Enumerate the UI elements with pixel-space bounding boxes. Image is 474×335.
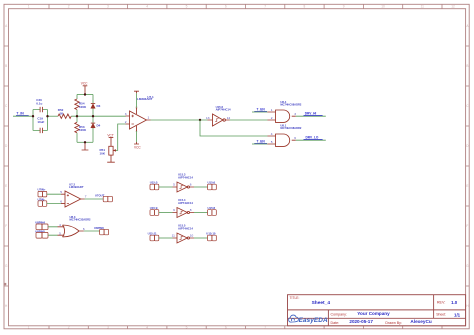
svg-text:AIP74HC14: AIP74HC14 <box>178 201 193 205</box>
resistor R54 <box>75 99 87 110</box>
inverter U15.5 AIP74HC14 (row 3) <box>172 224 194 244</box>
svg-text:VCC: VCC <box>134 146 141 150</box>
svg-text:2: 2 <box>125 120 127 124</box>
port U8PIN4 <box>35 221 48 230</box>
port U15:6 (row 1 output) <box>208 181 217 190</box>
svg-text:10uF: 10uF <box>37 120 44 124</box>
svg-text:7: 7 <box>264 325 266 329</box>
wire junction down to lower AND gate <box>200 120 268 136</box>
wire left rail segments <box>76 95 78 143</box>
wires U7.2 inputs <box>47 194 61 203</box>
svg-text:4: 4 <box>271 132 273 136</box>
wire row3 output <box>194 237 208 239</box>
net label T_EN (bottom gate pin5) <box>252 140 268 144</box>
wire row1 input <box>159 186 173 188</box>
port U15:10 (row 3 output) <box>206 232 216 241</box>
svg-text:2: 2 <box>68 325 70 329</box>
svg-text:0.1u: 0.1u <box>36 102 42 106</box>
svg-text:2020-05-17: 2020-05-17 <box>349 319 373 324</box>
capacitor C19 <box>37 117 44 134</box>
svg-text:3: 3 <box>125 112 127 116</box>
title block field labels <box>290 296 447 325</box>
port U7OUT <box>95 193 113 202</box>
AND gate U8.4 MC74HC08ADR2 (top) <box>268 100 302 122</box>
svg-text:MC74HC08ADR2: MC74HC08ADR2 <box>280 126 302 130</box>
svg-text:10: 10 <box>190 234 194 238</box>
svg-text:2: 2 <box>68 5 70 9</box>
wire U7.2 output <box>85 198 104 200</box>
svg-text:AIP74HC14: AIP74HC14 <box>216 108 231 112</box>
junction at op-amp output split <box>199 119 201 121</box>
wire row3 input <box>159 237 173 239</box>
svg-text:T_IN: T_IN <box>16 112 24 116</box>
wire cap loop bottom edge <box>33 129 48 131</box>
junction node dots on input rail <box>32 93 94 143</box>
wire cap loop left vertical <box>32 110 34 131</box>
diode D3 <box>91 104 101 109</box>
AND gate U8.1 MC74HC08ADR2 (bottom) <box>268 124 302 147</box>
svg-text:Company:: Company: <box>331 312 347 316</box>
svg-text:B: B <box>5 64 7 68</box>
svg-text:LM393ADT: LM393ADT <box>69 185 84 189</box>
wire row1 output <box>194 186 208 188</box>
port U7IN+ <box>38 188 47 197</box>
svg-text:2: 2 <box>271 116 273 120</box>
svg-text:Sheet:: Sheet: <box>436 312 446 316</box>
svg-text:D3: D3 <box>97 104 101 108</box>
svg-text:1: 1 <box>271 108 273 112</box>
svg-text:12: 12 <box>227 116 231 120</box>
svg-text:4: 4 <box>146 5 148 9</box>
wire right rail segments <box>92 95 94 143</box>
power flag VCT above R51 <box>107 134 113 147</box>
svg-text:Sheet_4: Sheet_4 <box>312 300 331 306</box>
capacitor C20 <box>36 98 42 112</box>
svg-text:10: 10 <box>381 5 385 9</box>
svg-text:5: 5 <box>173 182 175 186</box>
wire divider top rail <box>77 94 93 96</box>
svg-text:13: 13 <box>206 116 210 120</box>
op-amp U7.1 top power pin flag <box>134 91 139 114</box>
wire op-amp output to junction <box>151 119 208 121</box>
diode D4 <box>91 123 101 128</box>
port U15:11 (row 3 input) <box>148 231 159 240</box>
op-amp U7.1 LM393ADT <box>125 95 154 133</box>
svg-text:Drawn By:: Drawn By: <box>385 321 402 325</box>
svg-text:10K: 10K <box>100 152 106 156</box>
svg-text:6: 6 <box>190 183 192 187</box>
svg-text:5: 5 <box>60 190 62 194</box>
left band mark <box>4 283 6 285</box>
net label DRV_LO wire <box>296 136 326 141</box>
svg-text:6: 6 <box>225 325 227 329</box>
wire T_IN to cap loop <box>13 115 33 117</box>
svg-text:1.0: 1.0 <box>451 300 458 305</box>
wire cap loop top edge <box>33 109 48 111</box>
svg-text:6: 6 <box>294 136 296 140</box>
svg-text:T_EN: T_EN <box>257 108 266 112</box>
port U7IN- <box>38 197 47 206</box>
svg-text:5: 5 <box>186 325 188 329</box>
svg-text:11: 11 <box>421 5 425 9</box>
wire op-amp pin2 to pot wiper <box>116 124 126 150</box>
svg-text:AlexeyCu: AlexeyCu <box>410 319 432 324</box>
svg-text:LM393ADT: LM393ADT <box>137 97 153 101</box>
wire loop to R52 <box>48 115 59 117</box>
svg-text:U7IN+: U7IN+ <box>38 188 46 192</box>
wire U8.3 output <box>84 230 100 232</box>
wire row2 input <box>159 212 173 214</box>
svg-text:100K: 100K <box>79 128 87 132</box>
net label DRV_HI wire <box>296 112 326 117</box>
svg-text:8: 8 <box>304 5 306 9</box>
svg-text:9: 9 <box>343 5 345 9</box>
svg-text:6: 6 <box>60 200 62 204</box>
svg-text:B: B <box>466 64 468 68</box>
svg-text:E: E <box>466 184 468 188</box>
svg-text:100K: 100K <box>79 105 87 109</box>
resistor R52 <box>58 108 71 119</box>
wires U8.3 inputs <box>48 227 58 235</box>
svg-text:6: 6 <box>83 227 85 231</box>
wire inverter output to top AND gate <box>230 119 268 121</box>
wire op-amp pin8 to flag <box>136 93 138 108</box>
ground below divider <box>82 142 89 150</box>
svg-text:1: 1 <box>28 325 30 329</box>
port U8PIN5 <box>35 229 48 238</box>
svg-text:5: 5 <box>186 5 188 9</box>
power flag VCC top of divider <box>81 82 88 95</box>
svg-text:F: F <box>466 224 468 228</box>
svg-text:E: E <box>5 184 7 188</box>
svg-text:1/1: 1/1 <box>454 312 461 317</box>
svg-text:D4: D4 <box>97 123 101 127</box>
svg-text:3: 3 <box>294 112 296 116</box>
op-amp U7.2 LM393ADT <box>60 182 87 207</box>
resistor R53 <box>75 122 87 133</box>
inverter U15.6 AIP74HC14 <box>206 105 231 126</box>
svg-text:7: 7 <box>264 5 266 9</box>
svg-text:TITLE:: TITLE: <box>290 296 300 300</box>
port U8PIN6 <box>94 226 109 235</box>
svg-text:12: 12 <box>451 5 455 9</box>
svg-text:11: 11 <box>172 233 175 237</box>
ground below R51 <box>107 155 115 162</box>
svg-text:VCC: VCC <box>81 82 88 86</box>
title block values <box>312 300 461 324</box>
svg-text:EasyEDA: EasyEDA <box>299 317 328 324</box>
wire divider bottom rail <box>77 141 93 143</box>
svg-text:6: 6 <box>225 5 227 9</box>
svg-text:9: 9 <box>173 208 175 212</box>
port U15:8 (row 2 output) <box>208 206 217 215</box>
port U15:9 (row 2 input) <box>150 206 159 215</box>
svg-text:3: 3 <box>107 5 109 9</box>
svg-text:4: 4 <box>146 325 148 329</box>
op-amp U7.1 bottom power flag VCC <box>134 126 141 150</box>
svg-text:VCT: VCT <box>107 134 113 138</box>
svg-text:REV:: REV: <box>437 301 445 305</box>
svg-text:3: 3 <box>107 325 109 329</box>
svg-text:AIP74HC14: AIP74HC14 <box>178 175 193 179</box>
svg-text:Your Company: Your Company <box>357 311 390 316</box>
inverter U15.4 AIP74HC14 (row 2) <box>173 198 195 218</box>
wire row2 output <box>194 212 208 214</box>
EasyEDA logo <box>289 315 328 324</box>
wire R52 to divider <box>71 115 126 117</box>
svg-text:4: 4 <box>59 223 61 227</box>
svg-text:U15:11: U15:11 <box>148 231 157 235</box>
svg-text:T_EN: T_EN <box>257 140 266 144</box>
net label T_IN <box>16 112 29 116</box>
svg-text:F: F <box>5 224 7 228</box>
wire cap loop right vertical <box>47 110 49 131</box>
svg-text:5: 5 <box>59 231 61 235</box>
net label T_EN (top gate pin1) <box>252 108 268 112</box>
svg-text:1: 1 <box>28 5 30 9</box>
title block <box>288 295 466 326</box>
svg-text:MC74HC08ADR2: MC74HC08ADR2 <box>280 103 302 107</box>
svg-text:7: 7 <box>85 195 87 199</box>
svg-text:AIP74HC14: AIP74HC14 <box>178 226 193 230</box>
inverter U15.3 AIP74HC14 (row 1) <box>173 173 195 193</box>
svg-text:1: 1 <box>148 116 150 120</box>
svg-text:Date:: Date: <box>331 321 340 325</box>
svg-text:U8PIN5: U8PIN5 <box>35 229 45 233</box>
potentiometer R51 <box>100 146 116 155</box>
svg-text:5: 5 <box>271 140 273 144</box>
svg-text:8: 8 <box>190 208 192 212</box>
OR gate U8.3 MC74HC32ADR2 <box>58 215 92 237</box>
svg-text:MC74HC32ADR2: MC74HC32ADR2 <box>70 218 92 222</box>
frame row ticks left/right <box>4 46 469 286</box>
port U15:5 (row 1 input) <box>150 181 159 190</box>
